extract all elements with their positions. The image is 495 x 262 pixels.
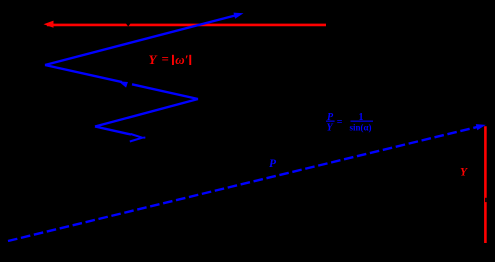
open arrowhead small [130,134,143,142]
notch on red vertical [485,198,487,202]
svg-text:P: P [269,158,277,170]
svg-text:=: = [337,117,343,128]
red vertical segment Y [484,126,487,243]
svg-text:Y: Y [327,123,334,134]
arrow tip dot [143,137,145,139]
arrowhead left end of red line [44,21,54,28]
svg-text:ω′: ω′ [175,52,188,67]
arrowhead dashed line [476,124,486,130]
svg-text:Y: Y [149,52,158,67]
svg-text:=: = [162,51,169,66]
wire: blue ray continuation to V2 [132,84,198,99]
dashed blue line P [8,127,478,241]
arrowhead mid ray [118,81,128,87]
svg-text:sin(α): sin(α) [350,123,372,133]
wire: blue exit ray segment [45,15,237,65]
formula P/Y = 1/sin(a) (blue fraction) [326,112,373,134]
svg-text:Y: Y [460,167,468,179]
red mirror line (top horizontal) [47,24,326,27]
wire: blue ray V2 to V3 [95,99,198,127]
arrowhead exit ray [234,13,244,19]
wire: blue ray V1 to mid arrow [45,65,122,82]
wire: blue ray V3 short end [95,127,131,135]
notch on red line [126,23,131,26]
